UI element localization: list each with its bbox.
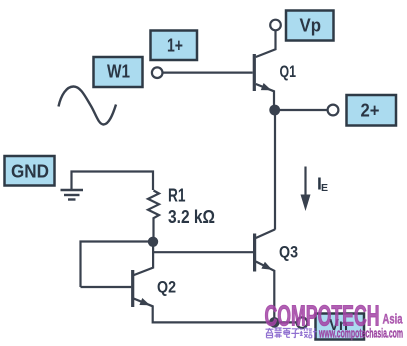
svg-text:W1: W1 (107, 62, 130, 82)
svg-text:R1: R1 (168, 186, 186, 206)
svg-text:Q2: Q2 (157, 278, 176, 297)
svg-text:www.compotechasia.com: www.compotechasia.com (318, 326, 403, 341)
svg-text:Q1: Q1 (280, 62, 297, 81)
svg-text:Q3: Q3 (279, 243, 298, 262)
svg-text:E: E (321, 182, 328, 194)
svg-text:1+: 1+ (167, 36, 183, 56)
svg-text:GND: GND (11, 162, 49, 182)
svg-text:2+: 2+ (361, 101, 380, 121)
svg-text:3.2 kΩ: 3.2 kΩ (168, 207, 215, 227)
svg-text:Vp: Vp (300, 16, 322, 36)
svg-text:Asia: Asia (383, 312, 403, 327)
